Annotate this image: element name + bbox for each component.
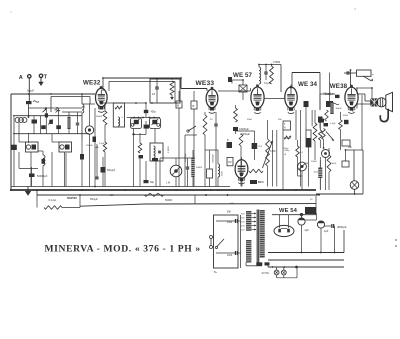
svg-text:4V PH: 4V PH (262, 271, 270, 275)
svg-text:5000: 5000 (332, 163, 337, 165)
svg-text:A: A (285, 153, 287, 156)
svg-text:125: 125 (241, 226, 245, 228)
svg-text:3: 3 (122, 117, 124, 119)
svg-text:+: + (372, 73, 374, 77)
svg-text:WE 57: WE 57 (233, 72, 253, 79)
svg-text:0,1mA: 0,1mA (49, 198, 57, 202)
svg-text:10000μF: 10000μF (239, 128, 249, 131)
svg-text:2500: 2500 (314, 172, 319, 174)
svg-text:0,1: 0,1 (259, 145, 263, 148)
svg-text:0,1μF: 0,1μF (330, 123, 336, 125)
svg-text:1M: 1M (228, 161, 231, 164)
svg-text:500μμF: 500μμF (107, 169, 116, 172)
svg-text:150: 150 (241, 222, 245, 224)
svg-text:450μ: 450μ (151, 111, 157, 114)
svg-text:50: 50 (310, 199, 313, 201)
svg-text:220: 220 (241, 214, 245, 216)
svg-text:1000: 1000 (227, 222, 233, 224)
svg-text:WE33: WE33 (196, 80, 215, 87)
svg-text:0,5MΩ: 0,5MΩ (168, 146, 170, 153)
svg-text:M: M (177, 104, 179, 108)
svg-text:WE38: WE38 (330, 83, 348, 90)
svg-text:30000: 30000 (336, 108, 343, 110)
svg-text:4000μF: 4000μF (337, 225, 347, 229)
svg-text:B+: B+ (214, 271, 218, 274)
svg-text:2500Ω: 2500Ω (86, 145, 93, 147)
svg-text:30000: 30000 (96, 116, 103, 118)
svg-text:B: B (227, 139, 229, 142)
svg-text:A: A (284, 127, 286, 130)
svg-text:MINERVA - MOD. « 376 - 1 PH »: MINERVA - MOD. « 376 - 1 PH » (45, 244, 201, 255)
svg-text:50000: 50000 (196, 167, 203, 169)
svg-text:B: B (193, 104, 195, 108)
svg-text:50000μF: 50000μF (185, 153, 187, 162)
svg-text:A: A (19, 75, 23, 81)
svg-text:WE 54: WE 54 (279, 208, 298, 214)
svg-text:TA 50: TA 50 (258, 181, 265, 184)
svg-text:50μ: 50μ (150, 181, 155, 184)
svg-text:WE 34: WE 34 (298, 81, 318, 88)
svg-text:T: T (44, 75, 48, 81)
svg-text:1000: 1000 (227, 255, 233, 257)
svg-text:0,1μF: 0,1μF (264, 82, 271, 85)
svg-text:500μμF: 500μμF (90, 199, 98, 201)
svg-text:4μF: 4μF (324, 230, 329, 233)
svg-text:f: f (84, 105, 85, 109)
svg-text:200: 200 (241, 218, 245, 220)
svg-text:110: 110 (241, 230, 245, 232)
svg-text:0,1: 0,1 (300, 152, 304, 154)
svg-text:2500: 2500 (222, 170, 224, 176)
svg-text:3000: 3000 (247, 119, 253, 121)
svg-text:50: 50 (210, 119, 213, 121)
svg-text:47000: 47000 (273, 60, 281, 64)
svg-text:WE32: WE32 (83, 79, 101, 86)
svg-text:L5: L5 (152, 92, 156, 96)
svg-text:300: 300 (278, 119, 282, 121)
svg-text:20000μF: 20000μF (213, 154, 215, 163)
svg-text:50μμF: 50μμF (27, 90, 35, 93)
svg-text:5000: 5000 (343, 115, 349, 117)
svg-text:1 M: 1 M (166, 182, 170, 185)
svg-text:10000: 10000 (311, 161, 318, 163)
svg-text:0,1μF: 0,1μF (99, 143, 105, 145)
svg-text:50000μF: 50000μF (37, 174, 48, 178)
svg-text:4μF: 4μF (305, 229, 310, 232)
svg-text:500/500: 500/500 (67, 196, 77, 200)
svg-text:50000: 50000 (165, 198, 173, 202)
svg-text:1V: 1V (227, 210, 231, 214)
svg-text:500μ: 500μ (285, 150, 291, 152)
svg-text:500μ: 500μ (284, 148, 290, 150)
